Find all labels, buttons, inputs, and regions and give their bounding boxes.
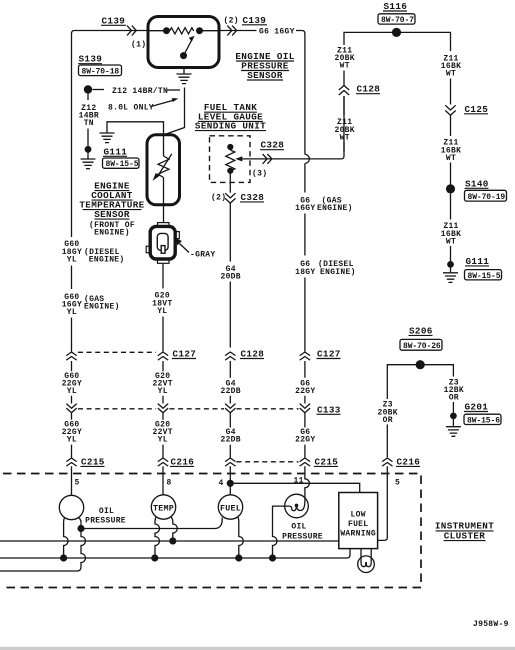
- splice S116 label and box: [378, 1, 415, 25]
- svg-text:C216: C216: [171, 456, 195, 467]
- svg-text:YL: YL: [157, 307, 167, 316]
- svg-text:YL: YL: [67, 308, 77, 317]
- svg-text:8: 8: [167, 479, 172, 488]
- svg-text:8W-15-6: 8W-15-6: [467, 416, 500, 425]
- splice S206 label and box: [400, 325, 442, 351]
- connector C125: [445, 104, 488, 115]
- wire Z11 16BK WT label 2: [441, 116, 461, 185]
- label GRAY with arrow: [176, 238, 216, 260]
- svg-text:C125: C125: [465, 104, 489, 115]
- connector row C215/C216: dashed link: [237, 461, 299, 463]
- wire col G6 segment: [304, 163, 306, 255]
- wire col G60 labels diesel: [62, 240, 125, 264]
- svg-text:G201: G201: [465, 402, 489, 413]
- svg-text:C328: C328: [241, 192, 265, 203]
- svg-text:S116: S116: [384, 1, 408, 12]
- wire pin 11 into oil pressure lamp with hop: [294, 466, 310, 510]
- svg-text:ENGINE): ENGINE): [89, 255, 125, 264]
- fuel tank level gauge sending unit header: [195, 102, 266, 131]
- svg-text:WT: WT: [340, 133, 350, 142]
- svg-text:J958W-9: J958W-9: [473, 620, 509, 629]
- svg-text:C128: C128: [241, 349, 265, 360]
- wire pin 4 feed to low fuel warning box: [234, 483, 360, 492]
- svg-text:(1): (1): [131, 41, 146, 50]
- splice S206 bar and dot: [387, 360, 453, 377]
- connector row C127/C128: dashed link: [78, 351, 156, 353]
- label engine oil pressure sensor: [235, 51, 294, 81]
- connector row C215/C216: chevron col G6: [300, 458, 310, 466]
- svg-text:ENGINE): ENGINE): [317, 204, 353, 213]
- svg-text:YL: YL: [67, 387, 77, 396]
- svg-text:G6 16GY: G6 16GY: [259, 27, 295, 36]
- svg-text:FUEL: FUEL: [348, 520, 368, 529]
- svg-text:8W-15-5: 8W-15-5: [468, 272, 501, 281]
- wire C139(1) to left elbow down (col G60 top): [72, 31, 149, 238]
- svg-text:-GRAY: -GRAY: [190, 251, 216, 260]
- bus line B with junction dot: [0, 537, 339, 544]
- svg-text:20DB: 20DB: [220, 273, 240, 282]
- connector C128 (Z11): [339, 84, 380, 95]
- svg-text:S140: S140: [465, 178, 489, 189]
- wire pin 5 (C216) to low fuel warning box: [378, 466, 401, 540]
- wire col G60 segment to C127: [71, 318, 73, 352]
- label C215 (col G60): [81, 456, 105, 467]
- label engine coolant temperature sensor: [79, 181, 144, 238]
- connector C139 (1): [101, 15, 146, 49]
- instrument cluster dashed box: [3, 474, 421, 588]
- bus line D (to oil gauge right lead): [0, 570, 77, 572]
- svg-text:YL: YL: [158, 387, 168, 396]
- wire Z11 16BK WT label 3: [441, 194, 461, 262]
- svg-text:4: 4: [219, 479, 224, 488]
- fuel gauge (circle): [218, 495, 242, 519]
- svg-text:OIL: OIL: [291, 523, 306, 532]
- svg-text:SENSOR: SENSOR: [247, 70, 283, 81]
- label G60 22GY YL (band A): [62, 372, 82, 396]
- wire segments above row C215/C216: [72, 445, 305, 458]
- wire G4 20DB column top: [220, 203, 240, 347]
- wire Z11 20BK WT upper label: [334, 47, 354, 71]
- label G20 22VT YL (band B): [152, 420, 172, 444]
- label C216 (col G20): [170, 456, 194, 467]
- connector C139 (2): [224, 15, 268, 36]
- svg-text:TN: TN: [84, 119, 94, 128]
- connector row C127/C128: chevron col G4: [225, 352, 235, 360]
- ground G111 left: [81, 146, 140, 169]
- svg-text:8.0L ONLY: 8.0L ONLY: [108, 104, 154, 113]
- connector row C215/C216: chevron col Z3: [382, 458, 392, 466]
- svg-text:OR: OR: [449, 394, 459, 403]
- label C133: [317, 404, 341, 415]
- svg-text:PRESSURE: PRESSURE: [85, 517, 126, 526]
- svg-text:22DB: 22DB: [220, 436, 240, 445]
- wire pin 8 into temp gauge: [163, 466, 172, 495]
- wiper arm of oil pressure sensor: [180, 36, 195, 59]
- wire col G20 segments: [162, 263, 164, 351]
- svg-text:C133: C133: [317, 404, 341, 415]
- svg-text:WT: WT: [340, 62, 350, 71]
- label C215 (col G6): [314, 456, 338, 467]
- fuel gauge right lead (hop B, dot C): [238, 517, 244, 556]
- wire Z12 14BR/TN below sensor ground: [164, 88, 184, 135]
- connector row C215/C216: chevron col G4: [225, 458, 235, 466]
- wire Z3 20BK OR label: [377, 377, 397, 457]
- temp gauge left lead (hop A, hop B, dot C): [155, 517, 160, 556]
- svg-text:ENGINE): ENGINE): [320, 268, 356, 277]
- svg-text:ENGINE): ENGINE): [94, 229, 130, 238]
- svg-text:ENGINE): ENGINE): [84, 303, 120, 312]
- label G60 22GY YL (band B): [62, 420, 82, 444]
- temp gauge right lead (hop A, dot B): [171, 517, 178, 539]
- svg-text:PRESSURE: PRESSURE: [282, 533, 323, 542]
- svg-text:OIL: OIL: [99, 507, 114, 516]
- wire segments below row C133: [72, 413, 305, 428]
- svg-text:22GY: 22GY: [295, 436, 315, 445]
- connector row C215/C216: chevron col G60: [66, 458, 76, 466]
- svg-text:YL: YL: [158, 436, 168, 445]
- svg-text:(3): (3): [252, 170, 267, 179]
- wire col G6 labels diesel: [295, 260, 356, 277]
- low fuel warning lamp (bulb with filament): [358, 549, 375, 573]
- bottom scan strip: [0, 647, 515, 650]
- bus line A (oil gauge to fuel gauge) with start dot: [77, 518, 222, 533]
- label INSTRUMENT CLUSTER: [435, 521, 494, 542]
- label C216 (col Z3): [396, 456, 420, 467]
- oil pressure warning lamp (circle with filament): [285, 494, 309, 518]
- svg-text:C215: C215: [81, 456, 105, 467]
- svg-text:5: 5: [75, 479, 80, 488]
- connector C328 (3): [252, 140, 284, 179]
- svg-text:5: 5: [395, 479, 400, 488]
- svg-text:C328: C328: [261, 140, 285, 151]
- svg-text:YL: YL: [67, 255, 77, 264]
- label G20 22VT YL (band A): [152, 372, 172, 396]
- connector row C133: chevron col G60: [66, 404, 76, 413]
- svg-text:OR: OR: [383, 416, 393, 425]
- svg-text:(2): (2): [224, 16, 239, 25]
- svg-text:22DB: 22DB: [220, 387, 240, 396]
- wire pin 4 into fuel gauge with junction dot: [219, 466, 234, 495]
- svg-text:8W-70-26: 8W-70-26: [403, 342, 441, 351]
- svg-text:C216: C216: [397, 456, 421, 467]
- svg-text:8W-70-7: 8W-70-7: [381, 16, 414, 25]
- fuel tank sending unit dashed box: [210, 136, 251, 183]
- label OIL PRESSURE (gauge): [85, 507, 126, 526]
- label C128 (col G4): [240, 349, 264, 360]
- ground G111 right: [443, 256, 502, 283]
- svg-text:C128: C128: [357, 84, 381, 95]
- resistor inside oil pressure sensor: [148, 27, 219, 34]
- svg-text:C139: C139: [243, 15, 267, 26]
- wire coolant sensor to gray connector: [163, 205, 165, 223]
- wire col G60 segment: [71, 266, 73, 290]
- oil gauge left lead (hop B, dot C): [64, 517, 69, 555]
- svg-text:WARNING: WARNING: [340, 530, 376, 539]
- svg-text:16GY: 16GY: [295, 204, 315, 213]
- wire col G6 segment to C127: [304, 278, 306, 352]
- connector C328 (2) below sender: [211, 171, 264, 203]
- wire pin 5 into oil pressure gauge: [72, 466, 80, 495]
- label G6 22GY (band A): [295, 379, 315, 396]
- splice S116 bar and dot: [344, 28, 451, 51]
- label C127 (col G6): [317, 349, 341, 360]
- svg-text:C127: C127: [173, 349, 197, 360]
- connector row C133: chevron col G4: [225, 404, 235, 413]
- hop of G6 column over sender wire: [305, 154, 310, 163]
- label G4 22DB (band B): [220, 428, 240, 445]
- svg-text:TEMP: TEMP: [153, 503, 174, 513]
- connector row C133: chevron col G20: [158, 404, 168, 413]
- fuel sender wiper arrow: [235, 156, 341, 161]
- svg-text:11: 11: [294, 477, 304, 486]
- wire segments below row C127: [72, 361, 305, 378]
- sensor box: engine coolant temperature sensor: [147, 135, 180, 205]
- splice S139 label: [78, 54, 122, 77]
- low fuel warning module box: [339, 493, 378, 549]
- svg-text:8W-15-5: 8W-15-5: [106, 160, 139, 169]
- svg-text:(2): (2): [211, 194, 226, 203]
- wire Z11 segment: [343, 71, 345, 86]
- svg-text:18GY: 18GY: [295, 268, 315, 277]
- ground under oil pressure sensor: [177, 68, 192, 84]
- svg-text:WT: WT: [446, 154, 456, 163]
- ground G201: [446, 402, 501, 437]
- svg-text:CLUSTER: CLUSTER: [444, 530, 486, 541]
- splice S139 dot: [84, 85, 104, 93]
- oil pressure lamp lead (hop B, dot C): [273, 505, 297, 555]
- wire C139(2) to right with G6 16GY label, elbow down col G6: [219, 27, 305, 154]
- connector (gray) of coolant sensor: [146, 223, 179, 264]
- svg-text:WT: WT: [446, 70, 456, 79]
- connector row C133: chevron col G6: [300, 404, 310, 413]
- oil gauge right lead (dot A, hop B, hop C, to bus D): [77, 517, 86, 571]
- svg-text:S139: S139: [79, 54, 103, 65]
- svg-text:LOW: LOW: [351, 511, 366, 520]
- label G6 22GY (band B): [295, 428, 315, 445]
- svg-text:Z12 14BR/TN: Z12 14BR/TN: [112, 87, 168, 96]
- bus line C with junction dots: [0, 549, 350, 562]
- wire segments above row C133: [72, 396, 305, 404]
- svg-text:8W-70-18: 8W-70-18: [82, 67, 120, 76]
- fuel sender resistor with terminal dots: [226, 144, 235, 174]
- label OIL PRESSURE (lamp): [282, 523, 323, 542]
- temp gauge (circle): [151, 495, 175, 519]
- svg-text:G111: G111: [104, 146, 128, 157]
- wire Z11 20BK WT lower label: [334, 96, 354, 152]
- sensor box: engine oil pressure sensor: [148, 17, 219, 68]
- svg-text:C139: C139: [102, 15, 126, 26]
- svg-text:C215: C215: [315, 456, 339, 467]
- connector row C127/C128: chevron col G6: [300, 352, 310, 360]
- wire col G60 labels gas: [62, 293, 120, 317]
- svg-text:G111: G111: [466, 256, 490, 267]
- wire col G20 label: [152, 292, 172, 316]
- label C127 (col G20): [172, 349, 196, 360]
- svg-text:C127: C127: [317, 349, 341, 360]
- label Z12 14BR/TN with leader: [112, 87, 180, 96]
- svg-text:FUEL: FUEL: [220, 503, 241, 513]
- connector row C127/C128: chevron col G20: [158, 352, 168, 360]
- svg-text:22GY: 22GY: [295, 387, 315, 396]
- svg-text:SENDING UNIT: SENDING UNIT: [195, 121, 266, 132]
- connector row C133: dashed links: [78, 408, 299, 410]
- wire Z11 16BK WT label 1: [441, 55, 461, 105]
- wire C328(3) to Z11 elbow: [341, 96, 344, 159]
- splice S140 dot with label: [446, 178, 507, 202]
- thermistor symbol inside coolant sensor: [153, 135, 172, 205]
- svg-text:WT: WT: [446, 237, 456, 246]
- connector row C127/C128: chevron col G60: [66, 352, 76, 360]
- label G4 22DB (band A): [220, 379, 240, 396]
- svg-text:YL: YL: [67, 436, 77, 445]
- svg-text:8W-70-19: 8W-70-19: [468, 193, 506, 202]
- label 8.0L ONLY with arrow: [108, 98, 178, 113]
- svg-text:SENSOR: SENSOR: [94, 209, 130, 220]
- oil pressure gauge (circle): [59, 495, 83, 519]
- wire Z12 column (S139 to G111): [79, 94, 99, 146]
- connector row C215/C216: chevron col G20: [158, 458, 168, 466]
- svg-text:S206: S206: [409, 325, 433, 336]
- ground 8.0L only with wire: [100, 122, 164, 143]
- wire Z3 12BK OR label: [444, 378, 464, 412]
- wire col G6 labels gas: [295, 197, 353, 214]
